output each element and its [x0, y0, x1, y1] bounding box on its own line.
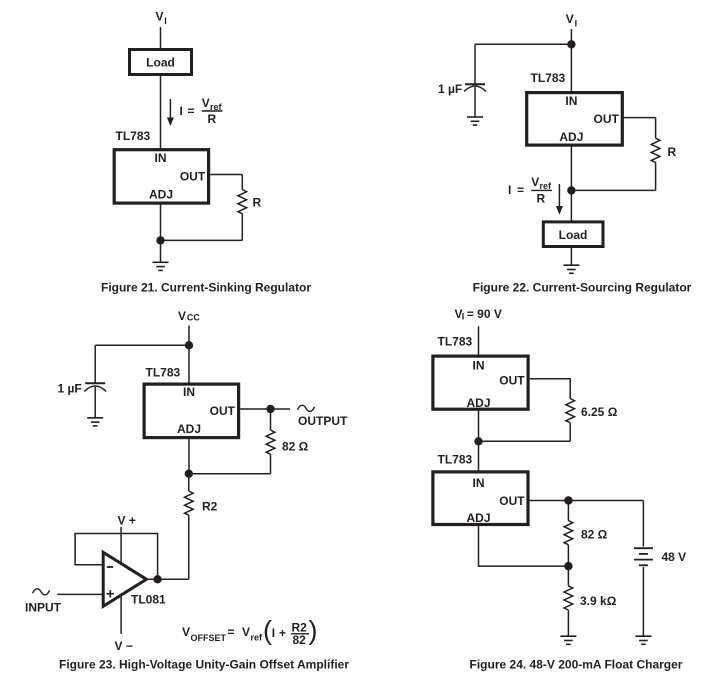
- feedback wire: [75, 534, 158, 580]
- wire Load to IN: [160, 75, 162, 149]
- junction dot (fig22): [567, 186, 575, 194]
- minus input mark: [107, 566, 113, 568]
- regulator U5 TL783 box: [433, 356, 528, 409]
- svg-text:=: =: [517, 183, 524, 197]
- load LOAD2: [543, 222, 603, 247]
- wire ADJ2 down and right: [479, 525, 569, 567]
- svg-text:R: R: [537, 192, 546, 206]
- svg-text:IN: IN: [565, 94, 577, 108]
- svg-text:I: I: [164, 16, 167, 26]
- svg-text:= 90 V: = 90 V: [467, 307, 502, 321]
- svg-text:82: 82: [293, 633, 307, 647]
- svg-text:R: R: [668, 145, 677, 159]
- svg-text:CC: CC: [187, 312, 200, 322]
- svg-text:ADJ: ADJ: [177, 422, 201, 436]
- op-amp U4 TL081: [103, 552, 146, 606]
- wire OUT2 to battery: [530, 500, 644, 502]
- svg-text:48 V: 48 V: [662, 550, 687, 564]
- svg-text:82 Ω: 82 Ω: [282, 440, 309, 454]
- svg-text:OUT: OUT: [180, 170, 206, 184]
- ac symbol input: [33, 589, 50, 595]
- capacitor C1 1uF: [464, 44, 486, 117]
- wire R bottom to node: [161, 239, 243, 241]
- resistor R82 (fig23): [266, 409, 275, 474]
- ac symbol output: [298, 405, 315, 411]
- svg-text:R: R: [208, 112, 217, 126]
- V- supply wire: [120, 595, 122, 634]
- svg-text:IN: IN: [155, 151, 167, 165]
- svg-text:I: I: [462, 312, 465, 322]
- svg-text:ADJ: ADJ: [149, 187, 173, 201]
- svg-text:V: V: [156, 10, 164, 24]
- svg-text:ADJ: ADJ: [559, 130, 583, 144]
- svg-text:OFFSET: OFFSET: [191, 633, 227, 643]
- formula VOFFSET: [182, 616, 318, 648]
- svg-text:TL081: TL081: [131, 593, 166, 607]
- ground under battery: [635, 636, 651, 644]
- svg-text:1 µF: 1 µF: [58, 382, 82, 396]
- wire VI to Load: [160, 27, 162, 49]
- svg-text:ref: ref: [251, 633, 264, 643]
- wire VI to IN: [570, 29, 572, 92]
- svg-text:IN: IN: [473, 359, 485, 373]
- wire OUT to R: [210, 174, 242, 176]
- svg-text:1 µF: 1 µF: [438, 82, 462, 96]
- battery BT1 48V: [634, 501, 653, 637]
- svg-text:V: V: [202, 96, 210, 110]
- wire VI to IN: [478, 326, 480, 356]
- resistor R (fig22): [651, 118, 660, 191]
- svg-text:TL783: TL783: [116, 129, 151, 143]
- wire node to C2: [95, 344, 189, 346]
- resistor R2: [185, 474, 194, 580]
- junction dot OUT2 node: [564, 496, 572, 504]
- svg-text:V: V: [566, 12, 574, 26]
- svg-text:+: +: [279, 626, 286, 640]
- ground (fig21): [153, 262, 169, 270]
- svg-text:V −: V −: [115, 639, 133, 653]
- svg-text:TL783: TL783: [438, 453, 473, 467]
- junction dot (fig21): [156, 236, 164, 244]
- svg-text:(: (: [263, 616, 272, 646]
- svg-text:Figure 22. Current-Sourcing Re: Figure 22. Current-Sourcing Regulator: [473, 281, 692, 295]
- junction dot ADJ2 node: [564, 562, 572, 570]
- svg-text:OUTPUT: OUTPUT: [298, 414, 348, 428]
- svg-text:Figure 24. 48-V 200-mA Float C: Figure 24. 48-V 200-mA Float Charger: [470, 658, 683, 672]
- plus input mark: [107, 590, 114, 597]
- svg-text:ADJ: ADJ: [466, 396, 490, 410]
- svg-text:I: I: [272, 626, 275, 640]
- ground under R39: [560, 636, 576, 644]
- wire ADJ to ground node: [160, 203, 162, 262]
- ground (fig22): [563, 265, 579, 273]
- svg-text:TL783: TL783: [531, 71, 566, 85]
- svg-text:V +: V +: [118, 514, 136, 528]
- svg-text:V: V: [178, 309, 186, 323]
- wire node to C1: [475, 43, 571, 45]
- svg-text:ADJ: ADJ: [466, 511, 490, 525]
- svg-text:=: =: [228, 625, 235, 639]
- svg-text:): ): [309, 616, 318, 646]
- wire VCC to IN: [188, 326, 190, 384]
- wire OUT to R: [624, 117, 656, 119]
- node VI (fig21): [156, 10, 167, 27]
- svg-text:Load: Load: [146, 56, 175, 70]
- svg-text:R: R: [253, 196, 262, 210]
- wire R2 to op-amp output: [146, 578, 188, 580]
- current arrow I (fig21): [167, 99, 174, 126]
- resistor R (fig21): [238, 175, 247, 241]
- svg-text:R2: R2: [202, 500, 218, 514]
- svg-text:V: V: [242, 625, 250, 639]
- node VCC: [178, 309, 200, 323]
- svg-text:Load: Load: [559, 228, 588, 242]
- junction dot VI node: [567, 40, 575, 48]
- junction dot mid node: [474, 437, 482, 445]
- ground under C2: [87, 418, 103, 426]
- svg-text:TL783: TL783: [146, 366, 181, 380]
- svg-text:OUT: OUT: [210, 404, 236, 418]
- svg-text:IN: IN: [183, 385, 195, 399]
- svg-text:6.25 Ω: 6.25 Ω: [581, 405, 618, 419]
- svg-text:I: I: [508, 183, 511, 197]
- junction dot op-amp output: [153, 575, 161, 583]
- label I = Vref/R (fig21): [180, 96, 223, 126]
- ground under C1: [467, 117, 483, 125]
- svg-text:=: =: [188, 104, 195, 118]
- svg-text:I: I: [575, 18, 578, 28]
- svg-text:V: V: [531, 175, 539, 189]
- resistor R625 6.25ohm: [566, 399, 575, 442]
- svg-text:IN: IN: [473, 476, 485, 490]
- wire ADJ to Load: [570, 146, 572, 221]
- regulator U2 TL783 box: [527, 93, 623, 146]
- current arrow I (fig22): [556, 184, 563, 215]
- capacitor C2 1uF: [84, 345, 106, 417]
- svg-text:82 Ω: 82 Ω: [581, 528, 608, 542]
- svg-text:3.9 kΩ: 3.9 kΩ: [580, 594, 617, 608]
- svg-text:I: I: [180, 104, 183, 118]
- svg-text:OUT: OUT: [499, 494, 525, 508]
- svg-text:INPUT: INPUT: [25, 601, 62, 615]
- resistor R39 3.9kohm: [564, 566, 573, 636]
- wire OUT to R625: [530, 379, 571, 399]
- resistor R82b 82ohm: [564, 501, 573, 567]
- svg-text:ref: ref: [540, 181, 553, 191]
- node VI 90V: [455, 307, 502, 322]
- svg-text:TL783: TL783: [438, 335, 473, 349]
- wire ADJ to IN2: [478, 409, 480, 471]
- wire input to plus: [57, 593, 103, 595]
- svg-text:Figure 23. High-Voltage Unity-: Figure 23. High-Voltage Unity-Gain Offse…: [59, 658, 349, 672]
- regulator U6 TL783 box: [433, 472, 528, 525]
- wire OUT to output: [240, 408, 290, 410]
- regulator U3 TL783 box: [144, 384, 239, 438]
- svg-text:OUT: OUT: [499, 374, 525, 388]
- regulator U1 TL783 box: [114, 150, 208, 203]
- svg-text:Figure 21. Current-Sinking Reg: Figure 21. Current-Sinking Regulator: [101, 281, 311, 295]
- junction dot output node: [266, 405, 274, 413]
- junction dot ADJ node: [185, 470, 193, 478]
- wire node to R82 bottom: [189, 473, 271, 475]
- svg-text:V: V: [182, 625, 190, 639]
- node VI (fig22): [566, 12, 577, 28]
- load LOAD1: [130, 50, 192, 75]
- wire ADJ to node: [188, 438, 190, 474]
- V+ supply wire: [120, 527, 122, 563]
- wire R bottom to node: [571, 189, 655, 191]
- wire node to R625 bottom: [479, 440, 571, 442]
- wire Load to ground: [570, 247, 572, 266]
- junction dot VCC node: [185, 341, 193, 349]
- label I = Vref/R (fig22): [508, 175, 552, 206]
- svg-text:OUT: OUT: [594, 112, 620, 126]
